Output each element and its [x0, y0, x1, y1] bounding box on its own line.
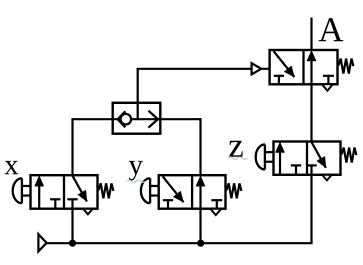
valve A (pilot 3/2) body [270, 50, 338, 84]
label z [229, 141, 243, 157]
junction dot at valve x supply [69, 240, 76, 247]
valve A (pilot 3/2) blocked port (left box) [274, 76, 284, 85]
junction dot at valve y supply [197, 240, 204, 247]
valve z return spring [341, 148, 356, 163]
valve x blocked port (left box) [50, 199, 60, 208]
valve x blocked supply (right box) [67, 199, 77, 208]
shuttle valve left seat chevron [118, 111, 126, 127]
valve x exhaust vent triangle [83, 209, 93, 215]
supply source triangle [38, 234, 46, 251]
valve y return spring [226, 183, 241, 198]
label x [4, 161, 18, 174]
valve y exhaust path (left box) [163, 176, 184, 202]
valve z blocked supply (right box) [306, 165, 316, 174]
label A [319, 18, 344, 41]
shuttle valve ball [121, 114, 132, 125]
valve z exhaust path (right box) [312, 142, 326, 168]
valve y body [159, 175, 226, 209]
valve x exhaust path (right box) [73, 176, 87, 202]
valve x body [31, 175, 98, 209]
shuttle valve right chevron [148, 111, 158, 128]
valve x pushbutton actuator [13, 178, 31, 203]
wire: valve A supply from valve z [310, 84, 312, 141]
wire: shuttle valve mid line (left branch to valve x corner) [73, 118, 114, 120]
valve y pushbutton actuator [141, 178, 159, 203]
wire: valve y supply drop [199, 209, 201, 244]
valve A (pilot 3/2) exhaust vent triangle [322, 84, 333, 90]
valve A (pilot 3/2) exhaust path (left box) [274, 51, 295, 77]
wire: valve y output riser [199, 118, 201, 175]
shuttle valve output stub [137, 103, 139, 119]
wire: bottom supply bus [47, 242, 313, 244]
valve y exhaust vent triangle [210, 209, 221, 215]
label y [129, 161, 143, 181]
valve y blocked port (left box) [163, 200, 173, 209]
shuttle valve body [113, 103, 161, 134]
valve A (pilot 3/2) flow arrow (right box) [307, 51, 316, 85]
valve A (pilot 3/2) blocked exhaust (right box) [323, 76, 334, 85]
wire: valve z supply down to bus [310, 175, 312, 243]
valve z body [274, 142, 341, 175]
valve y flow arrow (right box) [196, 176, 205, 209]
wire: valve x output riser [71, 118, 73, 175]
wire: valve x supply drop [71, 209, 73, 244]
wire: pilot line to valve A [137, 68, 270, 70]
shuttle valve mid line [113, 118, 161, 120]
valve z blocked port (left box) [291, 165, 301, 174]
valve z exhaust vent triangle [322, 175, 332, 181]
valve x return spring [98, 183, 113, 198]
valve z flow arrow (left box) [275, 142, 284, 175]
wire: output A up from valve A [310, 18, 312, 51]
valve y blocked exhaust (right box) [211, 200, 222, 209]
wire: shuttle output up [137, 69, 139, 103]
valve x flow arrow (left box) [35, 176, 44, 209]
wire: shuttle valve right branch to valve y corner [159, 118, 200, 120]
pilot signal triangle [252, 63, 262, 74]
valve z pushbutton actuator [256, 144, 274, 169]
grammar squiggle under y [127, 180, 146, 182]
grammar squiggle under z [228, 157, 247, 159]
valve A (pilot 3/2) return spring [338, 59, 353, 74]
